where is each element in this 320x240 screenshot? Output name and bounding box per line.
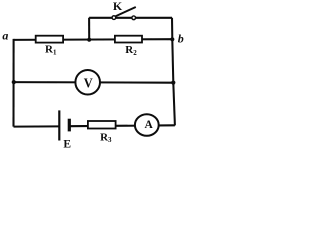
ammeter circle — [135, 114, 159, 136]
switch K contact circle right — [132, 16, 136, 20]
svg-text:b: b — [178, 32, 184, 46]
resistor R1 box — [36, 36, 63, 43]
switch K blade — [116, 7, 136, 16]
svg-text:V: V — [84, 77, 93, 92]
wire bottom right segment (battery short plate to b corner, under R3 and ammeter) — [69, 124, 175, 127]
junction node b dot — [170, 37, 174, 41]
switch K contact circle left — [112, 16, 116, 20]
wire bottom left segment (rail to battery long plate) — [14, 125, 60, 127]
resistor R3 box — [88, 121, 116, 129]
wire left vertical rail — [12, 39, 14, 127]
resistor R2 box — [115, 36, 142, 43]
battery E short plate — [68, 119, 71, 132]
wire switch branch vertical — [88, 18, 90, 40]
svg-text:E: E — [63, 139, 71, 150]
voltmeter circle — [75, 70, 100, 95]
junction dot voltmeter left — [12, 80, 16, 84]
battery E long plate — [58, 110, 60, 140]
junction dot voltmeter right — [171, 81, 175, 85]
wire voltmeter branch — [14, 81, 174, 84]
svg-text:a: a — [2, 29, 8, 43]
wire top main (a corner to b through R1 R2) — [14, 38, 173, 41]
svg-text:K: K — [113, 0, 123, 13]
svg-text:A: A — [144, 119, 153, 131]
wire right vertical rail — [172, 18, 175, 126]
wire switch branch horizontal — [89, 17, 172, 19]
junction dot at switch branch / top wire — [87, 38, 91, 42]
